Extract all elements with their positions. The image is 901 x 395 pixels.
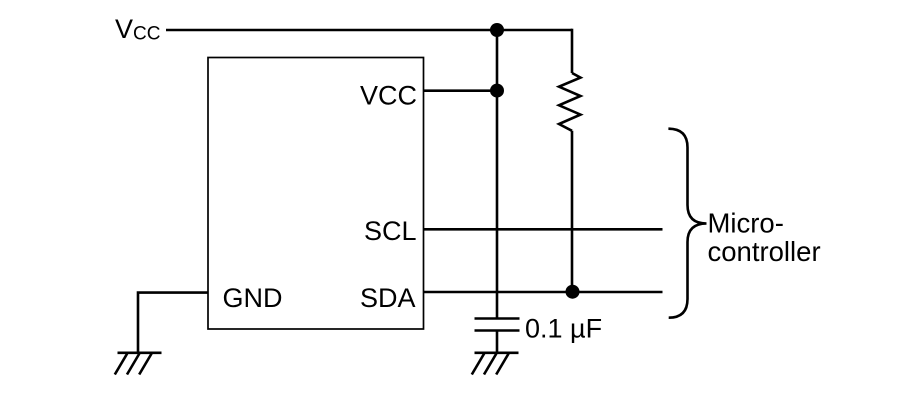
wire: Vcc rail (top horizontal) bbox=[166, 29, 572, 32]
ground (decoupling): hatch 1 bbox=[472, 354, 484, 375]
capacitor C (decoupling): bottom plate bbox=[475, 329, 520, 332]
wire: VCC pin to rail bbox=[424, 89, 498, 92]
IC body bbox=[208, 58, 424, 330]
svg-text:SDA: SDA bbox=[360, 283, 416, 313]
svg-text:VCC: VCC bbox=[115, 14, 160, 45]
svg-text:0.1 µF: 0.1 µF bbox=[525, 314, 602, 344]
wire: SCL to microcontroller bbox=[424, 228, 663, 231]
resistor R (pull-up) bbox=[559, 73, 581, 131]
ground (left): bar bbox=[118, 351, 162, 354]
node: VCC pin junction bbox=[490, 84, 504, 98]
ground (decoupling): hatch 3 bbox=[496, 354, 508, 375]
ground (decoupling): hatch 2 bbox=[484, 354, 496, 375]
node: resistor / SDA junction bbox=[566, 285, 580, 299]
node: rail / decoupling-branch junction bbox=[490, 23, 504, 37]
ground (left): hatch 1 bbox=[115, 354, 127, 375]
wire: resistor bottom to SDA line bbox=[571, 131, 574, 292]
ground (decoupling): bar bbox=[475, 351, 519, 354]
wire: GND pin to ground bbox=[138, 293, 208, 352]
ground (left): hatch 2 bbox=[127, 354, 139, 375]
wire: SDA to microcontroller bbox=[424, 291, 663, 294]
wire: decoupling branch vertical (rail to capacitor) bbox=[496, 30, 499, 319]
ground (left): hatch 3 bbox=[139, 354, 151, 375]
svg-text:VCC: VCC bbox=[360, 81, 417, 111]
svg-text:controller: controller bbox=[708, 236, 821, 267]
capacitor C (decoupling): top plate bbox=[475, 317, 520, 320]
wire: rail corner down to resistor top bbox=[571, 29, 574, 73]
svg-text:Micro-: Micro- bbox=[708, 208, 784, 239]
svg-text:SCL: SCL bbox=[364, 216, 417, 246]
svg-text:GND: GND bbox=[223, 283, 283, 313]
brace: microcontroller connections bbox=[668, 129, 706, 318]
wire: capacitor to ground bbox=[496, 331, 499, 353]
